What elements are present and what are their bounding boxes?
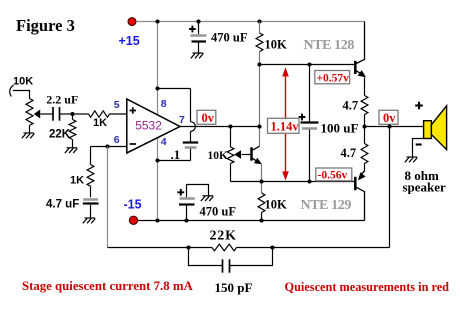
- wire out to 4.7 bottom: [364, 127, 366, 144]
- plus sign C470 top: [189, 26, 196, 33]
- measure box -0.56v: [316, 168, 352, 181]
- wire C470 top lead: [198, 22, 200, 35]
- speaker minus sign: [416, 143, 422, 145]
- potentiometer 10K input: [26, 99, 33, 126]
- pin 5 label: [114, 99, 120, 111]
- svg-text:-15: -15: [124, 198, 142, 212]
- wire bias column lower: [261, 164, 263, 193]
- svg-text:-0.56v: -0.56v: [318, 169, 348, 181]
- node rail- supply column: [155, 218, 159, 222]
- capacitor 4.7uF plate pos: [83, 198, 98, 201]
- ground C3: [83, 218, 96, 223]
- wire R2 to C3: [90, 186, 92, 197]
- svg-text:+15: +15: [119, 34, 140, 48]
- label 4.7 top: [343, 99, 359, 113]
- capacitor 150pF plate B: [229, 259, 231, 272]
- wire feedback bottom right: [237, 247, 390, 249]
- resistor 10K pullup: [256, 33, 263, 52]
- node pot top: [228, 124, 232, 128]
- capacitor 470uF-top plate neg: [192, 40, 207, 42]
- resistor 4.7 bottom: [361, 144, 368, 164]
- label 22K feedback: [210, 228, 237, 243]
- node bias top line: [257, 62, 261, 66]
- label 22K shunt: [49, 129, 71, 141]
- resistor 1K gain: [87, 165, 94, 187]
- capacitor 470uF-top plate pos: [191, 34, 207, 37]
- svg-text:470 uF: 470 uF: [200, 205, 237, 219]
- wire output to speaker: [365, 126, 424, 128]
- svg-text:10K: 10K: [265, 198, 288, 212]
- label 2.2 uF: [46, 93, 78, 107]
- svg-text:speaker: speaker: [403, 179, 447, 194]
- label 4.7 uF: [46, 199, 79, 211]
- svg-text:4: 4: [161, 136, 167, 148]
- node output bias column: [257, 124, 261, 128]
- wire 150pF branch right: [230, 248, 273, 266]
- svg-text:10K: 10K: [13, 76, 33, 88]
- wire 4.7 top to out: [364, 115, 366, 127]
- label 10K input: [13, 76, 33, 88]
- svg-text:NTE 128: NTE 128: [304, 38, 355, 53]
- svg-text:1.14v: 1.14v: [271, 120, 300, 134]
- wire 150pF branch left: [189, 248, 223, 266]
- svg-text:5: 5: [114, 99, 120, 111]
- label 1K gain: [70, 175, 84, 187]
- wire input to pot: [13, 91, 30, 99]
- wire 100uF top lead: [309, 65, 311, 123]
- wire +15 rail: [136, 21, 364, 23]
- wire op-amp output: [180, 126, 260, 128]
- node feedback tap: [387, 124, 391, 128]
- wire pot top lead: [230, 127, 232, 148]
- wire bypass right lower: [190, 131, 192, 142]
- capacitor 150pF plate A: [222, 259, 224, 272]
- wire rail to 10K pullup: [259, 22, 261, 34]
- svg-text:150 pF: 150 pF: [215, 280, 253, 295]
- wire bypass top: [158, 88, 191, 90]
- transistor NTE128 base bar: [354, 61, 357, 74]
- op-amp noninv sign: [130, 107, 136, 113]
- svg-text:Stage quiescent current 7.8 mA: Stage quiescent current 7.8 mA: [22, 279, 193, 293]
- wire bias bottom line: [231, 181, 355, 183]
- label 470 uF top: [211, 31, 248, 45]
- transistor NTE129 emitter: [361, 171, 365, 175]
- wire bypass right upper: [190, 89, 192, 122]
- pin 8 label: [161, 98, 167, 110]
- svg-text:0v: 0v: [383, 111, 396, 125]
- label 8 ohm: [405, 168, 439, 183]
- svg-text:10K: 10K: [265, 38, 288, 52]
- svg-text:Quiescent measurements in red: Quiescent measurements in red: [285, 280, 450, 294]
- svg-text:.1: .1: [171, 147, 181, 162]
- pin 4 label: [161, 136, 167, 148]
- wire 10K pulldown to rail: [261, 213, 263, 221]
- label 4.7 bottom: [341, 146, 357, 160]
- capacitor 470uF-bot plate neg: [179, 203, 195, 205]
- svg-text:10K: 10K: [208, 150, 229, 162]
- label 10K pullup: [265, 38, 288, 52]
- wire R1 to pin5: [110, 113, 128, 115]
- measure arrow 1.14v: [282, 67, 289, 180]
- capacitor 4.7uF plate neg: [83, 202, 99, 204]
- transistor NTE128 collector: [356, 22, 364, 64]
- node pin8 tap: [155, 86, 159, 90]
- resistor 22K shunt: [69, 120, 76, 140]
- ground input pot: [22, 133, 35, 138]
- capacitor .1 plate top: [183, 141, 198, 143]
- svg-text:1K: 1K: [70, 175, 84, 187]
- +15 label: [119, 34, 140, 48]
- transistor NTE128 emitter arrow: [358, 70, 366, 77]
- svg-text:4.7 uF: 4.7 uF: [46, 199, 79, 211]
- resistor 22K feedback: [212, 244, 237, 251]
- wire pin6: [91, 146, 128, 148]
- wire C1 to node A: [60, 113, 73, 115]
- potentiometer 10K bias: [227, 147, 234, 164]
- svg-text:22K: 22K: [210, 228, 237, 243]
- resistor 4.7 top: [361, 96, 368, 115]
- label 10K pulldown: [265, 198, 288, 212]
- label NTE 129: [301, 198, 352, 213]
- svg-text:NTE 129: NTE 129: [301, 198, 352, 213]
- wire pot bottom lead: [230, 164, 232, 182]
- wire wiper to C1: [40, 113, 52, 115]
- label 5532: [135, 119, 162, 133]
- wire bypass below cap: [190, 149, 192, 161]
- capacitor 2.2uF plate B: [59, 107, 61, 121]
- measure box +0.57v: [315, 71, 350, 85]
- resistor 1K series: [89, 111, 110, 117]
- wire feedback column: [107, 147, 109, 248]
- svg-text:0v: 0v: [202, 111, 215, 125]
- transistor NTE129 collector: [356, 187, 364, 220]
- note quiescent measurements: [285, 280, 450, 294]
- node rail+ supply column: [155, 19, 159, 23]
- node rail+ C470 top: [196, 19, 200, 23]
- wire C470 bottom lead: [186, 205, 188, 221]
- ground C470 top: [191, 53, 204, 58]
- svg-text:1K: 1K: [93, 117, 107, 129]
- node output emitters: [362, 124, 366, 128]
- node pin4 tap: [155, 158, 159, 162]
- measure box 0v opamp: [197, 110, 216, 125]
- wire bias top line: [260, 64, 355, 66]
- node 150pF right: [270, 245, 274, 249]
- capacitor 470uF-bot plate pos: [180, 197, 195, 200]
- svg-text:2.2 uF: 2.2 uF: [46, 93, 78, 107]
- wire pin6 to R2: [90, 147, 92, 165]
- svg-text:22K: 22K: [49, 129, 71, 141]
- input jack arc: [10, 85, 14, 96]
- node B feedback: [105, 144, 109, 148]
- wire pot to ground: [29, 125, 31, 133]
- svg-text:+0.57v: +0.57v: [317, 72, 350, 84]
- wire 22K to ground: [72, 140, 74, 148]
- transistor Q1 collector: [253, 146, 260, 150]
- node bias top 100uF: [307, 62, 311, 66]
- -15 supply dot: [129, 216, 137, 224]
- wire C3 to ground: [90, 205, 92, 218]
- wire node A to R1: [73, 113, 89, 115]
- ground C470 bottom: [201, 196, 214, 201]
- node rail+ bias column: [257, 19, 261, 23]
- -15 label: [124, 198, 142, 212]
- node rail- C470 bottom: [184, 218, 188, 222]
- node bias bottom line: [259, 179, 263, 183]
- speaker plus sign: [415, 102, 423, 110]
- wire hop over output: [191, 122, 196, 132]
- wire feedback riser: [389, 127, 391, 248]
- resistor 10K pulldown: [258, 193, 265, 213]
- label 100 uF: [321, 121, 359, 136]
- plus sign C470 bottom: [177, 189, 184, 196]
- pin 6 label: [114, 134, 120, 146]
- wire speaker return: [413, 139, 424, 158]
- svg-text:7: 7: [179, 114, 185, 126]
- wire feedback bottom left: [108, 247, 213, 249]
- wire supply column: [157, 22, 159, 221]
- capacitor 100uF plate pos: [301, 121, 319, 123]
- measure box 0v output: [379, 110, 398, 125]
- capacitor 2.2uF plate A: [52, 107, 54, 121]
- speaker cone: [431, 106, 446, 150]
- note quiescent current: [22, 279, 193, 293]
- label 470 uF bottom: [200, 205, 237, 219]
- wire NTE128 emitter lead: [364, 78, 366, 96]
- measure box 1.14v: [268, 118, 300, 133]
- transistor NTE129 emitter arrow: [358, 172, 366, 180]
- bias wiper arrow: [234, 150, 241, 158]
- wire node A down: [72, 114, 74, 120]
- plus sign 100uF: [299, 114, 306, 121]
- wire wiper to Q1 base: [242, 154, 251, 156]
- svg-text:6: 6: [114, 134, 120, 146]
- svg-text:Figure 3: Figure 3: [16, 16, 75, 35]
- wire C470 top to ground: [198, 43, 200, 54]
- transistor NTE129 base bar: [354, 177, 357, 190]
- pot wiper arrow: [34, 110, 40, 119]
- label .1: [171, 147, 181, 162]
- ground 22K: [65, 148, 78, 153]
- svg-text:4.7: 4.7: [343, 99, 359, 113]
- svg-text:4.7: 4.7: [341, 146, 357, 160]
- op-amp U1 body: [127, 99, 180, 153]
- capacitor .1 plate bottom: [185, 146, 197, 149]
- speaker driver: [424, 121, 432, 139]
- transistor Q1 emitter: [253, 158, 258, 161]
- node bias bottom 100uF: [307, 179, 311, 183]
- label 1K series: [93, 117, 107, 129]
- wire bypass bottom: [158, 160, 191, 162]
- svg-text:5532: 5532: [135, 119, 162, 133]
- svg-text:100 uF: 100 uF: [321, 121, 359, 136]
- wire NTE129 emitter lead: [364, 164, 366, 172]
- wire C470 bottom hook: [187, 185, 209, 198]
- node rail- bias column: [259, 218, 263, 222]
- label speaker: [403, 179, 447, 194]
- label 10K bias: [208, 150, 229, 162]
- wire 100uF bottom lead: [309, 130, 311, 182]
- capacitor 100uF plate neg: [302, 127, 317, 130]
- transistor Q1 base bar: [250, 147, 253, 160]
- title Figure 3: [16, 16, 75, 35]
- node A: [70, 112, 74, 116]
- transistor Q1 emitter arrow: [254, 158, 262, 165]
- label 150 pF: [215, 280, 253, 295]
- svg-text:8: 8: [161, 98, 167, 110]
- wire bias column upper: [259, 52, 261, 147]
- ground speaker: [405, 157, 418, 162]
- node 150pF left: [186, 245, 190, 249]
- label NTE 128: [304, 38, 355, 53]
- svg-text:470 uF: 470 uF: [211, 31, 248, 45]
- wire -15 rail: [138, 220, 365, 222]
- +15 supply dot: [128, 18, 136, 26]
- op-amp inv sign: [130, 143, 136, 145]
- pin 7 label: [179, 114, 185, 126]
- transistor NTE128 emitter: [356, 71, 362, 74]
